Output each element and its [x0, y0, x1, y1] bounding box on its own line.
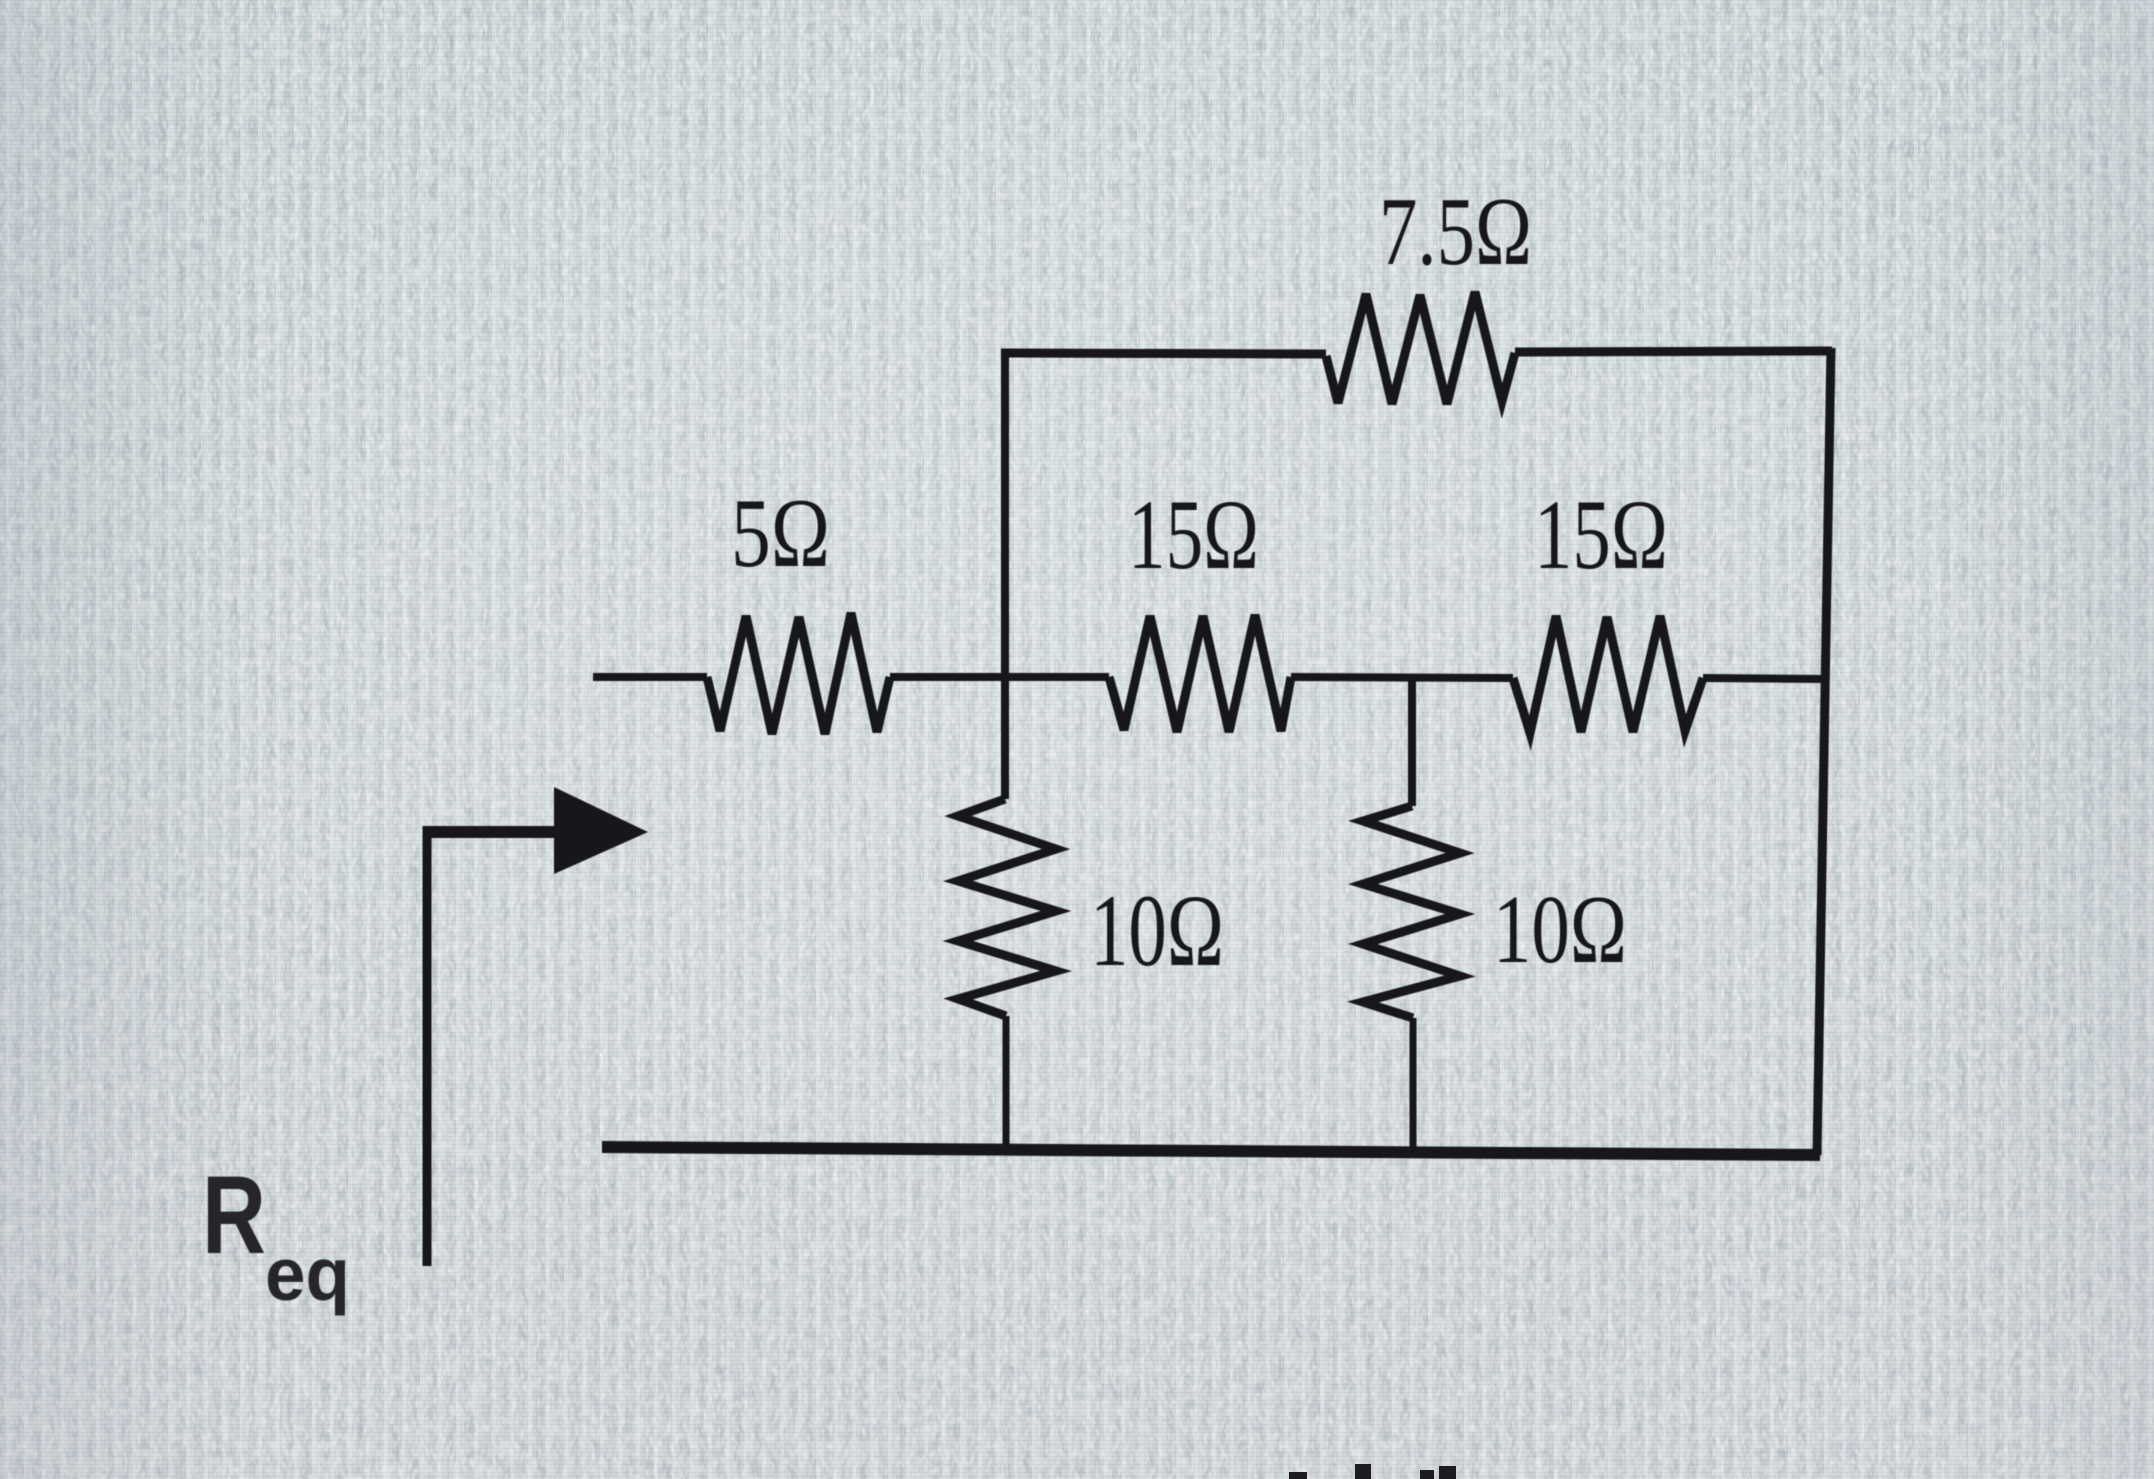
wire: main rail left stub [593, 673, 707, 681]
resistor R 15ohm right zigzag [1513, 616, 1703, 733]
resistor R 10ohm left vertical zigzag [958, 799, 1056, 1016]
svg-text:7.5Ω: 7.5Ω [1379, 178, 1532, 286]
wire: Req port vertical lead [423, 826, 432, 1266]
resistor R 5ohm zigzag [707, 613, 890, 734]
wire: 10ohm left bottom lead [1003, 1016, 1010, 1149]
svg-text:5Ω: 5Ω [731, 479, 830, 588]
svg-text:15Ω: 15Ω [1128, 479, 1259, 590]
wire: main rail between the two 15ohm (node B junction at x=1412) [1291, 677, 1513, 678]
svg-text:10Ω: 10Ω [1493, 876, 1627, 984]
arrowhead of Req port arrow [554, 787, 648, 874]
wire: 10ohm left top lead [1001, 677, 1009, 799]
cut-off text remnants at bottom edge [1289, 1464, 1456, 1479]
wire: Req port arrow shaft [424, 826, 556, 838]
svg-text:10Ω: 10Ω [1090, 874, 1224, 988]
resistor R 10ohm right vertical zigzag [1363, 806, 1460, 1018]
wire: 10ohm right bottom lead [1410, 1018, 1417, 1152]
wire: top rail right segment [1515, 351, 1832, 352]
resistor R 15ohm left zigzag [1109, 615, 1291, 732]
wire: main rail right to right edge [1703, 678, 1824, 679]
resistor R 7.5ohm zigzag [1326, 292, 1515, 404]
wire: node A vertical up to top rail [1001, 350, 1009, 677]
wire: top rail left segment [1001, 353, 1326, 354]
wire: right edge vertical [1817, 348, 1831, 1155]
svg-text:15Ω: 15Ω [1534, 479, 1668, 590]
svg-text:R: R [202, 1154, 266, 1277]
wire: 10ohm right top lead [1408, 678, 1416, 806]
wire: bottom rail [602, 1147, 1820, 1155]
wire: main rail between 5ohm and 15ohm (node A junction at x=1005) [890, 673, 1109, 681]
svg-text:eq: eq [265, 1232, 350, 1316]
